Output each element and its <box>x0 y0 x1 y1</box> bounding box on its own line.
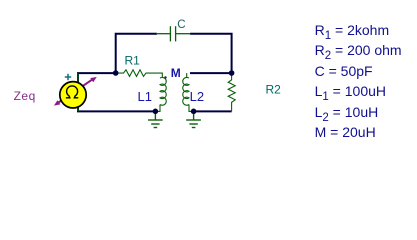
arrow through source <box>54 77 97 106</box>
wire source bottom to L1 ground node <box>78 106 155 112</box>
current source Zeq: terminal stubs <box>77 73 79 84</box>
svg-text:R1: R1 <box>125 54 141 68</box>
wire node B to L2 top <box>190 72 232 74</box>
wire source top to node A <box>78 73 116 83</box>
capacitor C <box>156 26 191 41</box>
wire R2 bottom to L2 ground node <box>194 110 232 112</box>
omega symbol <box>66 86 78 98</box>
wire capacitor right to node B <box>190 34 232 73</box>
svg-text:Zeq: Zeq <box>14 89 36 103</box>
plus sign <box>65 74 71 80</box>
svg-text:M: M <box>171 66 181 80</box>
ground under L2 <box>186 111 201 127</box>
resistor R2 <box>228 73 235 111</box>
polarity dot <box>164 76 166 78</box>
ground under L1 <box>148 111 163 127</box>
node B junction dot <box>229 70 235 76</box>
ground node dot L2 <box>191 109 197 115</box>
svg-text:C: C <box>177 19 185 31</box>
svg-text:R2: R2 <box>266 83 282 97</box>
component values text block <box>315 20 402 143</box>
current source circle <box>60 82 86 108</box>
svg-text:L1: L1 <box>138 89 152 104</box>
resistor R1 <box>116 70 163 78</box>
wire node A up and right to capacitor <box>116 34 157 73</box>
node A junction dot <box>113 70 119 76</box>
inductor L2 <box>183 77 189 105</box>
inductor L1 <box>160 77 166 105</box>
ground node dot L1 <box>153 109 159 115</box>
svg-text:L2: L2 <box>190 89 204 104</box>
